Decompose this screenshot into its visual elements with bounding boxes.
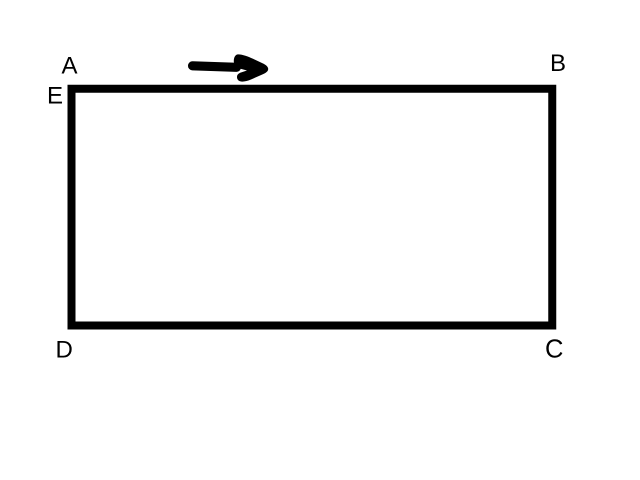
svg-text:A: A	[62, 52, 78, 79]
svg-text:B: B	[550, 50, 566, 77]
svg-text:D: D	[56, 336, 73, 363]
rectangle ABCD	[72, 89, 553, 326]
arrow (direction marker on top edge)	[193, 54, 269, 81]
svg-text:E: E	[47, 82, 63, 109]
svg-text:C: C	[545, 336, 563, 364]
